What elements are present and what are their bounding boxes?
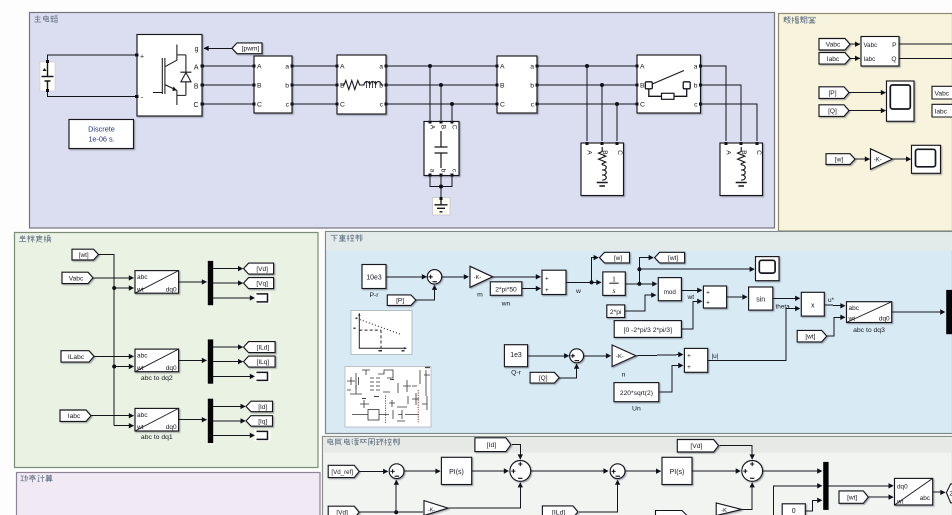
svg-text:abc: abc (137, 412, 148, 419)
port RL right (384, 64, 387, 67)
svg-text:mod: mod (664, 289, 677, 296)
svg-text:[Vd]: [Vd] (690, 443, 702, 450)
wire Vdc- to bridge - (48, 91, 136, 97)
gain 4 (clipped) (716, 503, 741, 515)
svg-text:C: C (616, 150, 623, 155)
svg-text:+: + (687, 353, 691, 360)
wire demux2 to terminator2 (213, 375, 254, 377)
svg-text:abc: abc (849, 305, 860, 312)
svg-text:[Vd]: [Vd] (336, 510, 348, 515)
svg-text:|u|: |u| (712, 353, 719, 360)
svg-text:dq0: dq0 (166, 286, 177, 293)
wire PI1 to sum7 (472, 470, 509, 472)
sum junction 7 (current fwd) (510, 461, 531, 482)
wire wt2 to abc-dq3 (827, 317, 845, 336)
junction wt scope (637, 267, 641, 271)
wire dq3 out to mux4 (892, 311, 945, 313)
svg-text:b: b (530, 83, 534, 90)
wire RL b to VI2 B (386, 84, 497, 86)
svg-text:theta: theta (776, 303, 791, 310)
svg-text:abc: abc (137, 353, 148, 360)
From tag [Q] (530, 372, 559, 383)
junction load1 b (600, 83, 604, 87)
svg-text:+: + (545, 275, 549, 282)
region area: power calculation (功率计算) (17, 473, 321, 515)
svg-text:[ILd]: [ILd] (257, 345, 270, 352)
svg-text:[ILd]: [ILd] (552, 509, 565, 515)
demux 1 (208, 261, 213, 305)
wire Vabc to PQ block (850, 43, 860, 45)
From tag [ILd] (clipped) (542, 506, 578, 515)
scope w (912, 145, 941, 173)
product block x (801, 292, 824, 316)
junction node phase c (450, 102, 454, 106)
svg-text:A: A (586, 150, 593, 155)
wire wt to dq0-1 (114, 287, 133, 289)
mux 5 (823, 462, 828, 510)
wire cap c down (441, 175, 452, 187)
wire Vd_ref to sum6 (359, 470, 387, 472)
region area: coordinate transform (坐标变换) (15, 233, 319, 468)
svg-text:[Id]: [Id] (487, 442, 497, 449)
ground symbol (433, 198, 451, 216)
wire RL a to VI2 A (386, 65, 497, 67)
svg-text:+: + (687, 364, 691, 371)
svg-text:b: b (440, 169, 447, 173)
svg-text:ILabc: ILabc (68, 354, 85, 361)
From tag ILabc (61, 351, 94, 362)
svg-text:C: C (640, 102, 645, 109)
label: 数据观察 (784, 17, 815, 24)
port cap top (439, 120, 442, 123)
port load2 top (755, 142, 758, 145)
wire VI1 a to RL A (292, 65, 337, 67)
Goto tag [Vd] (244, 263, 274, 274)
wire breaker b to load2 (701, 85, 742, 141)
svg-text:a: a (285, 64, 289, 71)
svg-text:a: a (429, 169, 436, 173)
svg-text:w: w (575, 288, 581, 295)
port VI1 right (290, 64, 293, 67)
DC voltage source Vdc (40, 62, 55, 91)
wire vector to sum3 (681, 301, 701, 329)
junction load1 c (615, 102, 619, 106)
From tag Iabc (coord) (60, 410, 91, 421)
wire bridge A to VI1 A (202, 65, 254, 67)
svg-text:B: B (640, 83, 645, 90)
wire VI2 c to breaker C (537, 103, 637, 105)
terminator 1 (255, 292, 271, 303)
mod block (658, 278, 681, 301)
svg-text:C: C (193, 102, 198, 109)
junction node phase a (428, 64, 432, 68)
From tag [Vd] (vc bottom, clipped) (328, 506, 359, 515)
three-phase series RL branch block (337, 55, 386, 114)
svg-text:dq0: dq0 (879, 316, 890, 323)
gain 3 (clipped) (424, 501, 448, 515)
port breaker right (699, 64, 702, 67)
PQ power measurement block (861, 37, 899, 67)
RL load block 2 (720, 143, 763, 196)
svg-text:Q: Q (891, 56, 896, 63)
svg-text:c: c (531, 102, 535, 109)
svg-text:PI(s): PI(s) (670, 469, 685, 476)
svg-text:A: A (725, 150, 732, 155)
wire 0 to mux5 (805, 500, 821, 511)
Goto tag [Id] (246, 401, 273, 412)
wire sum2 to integrator (566, 281, 601, 283)
svg-text:-K: -K (721, 508, 727, 514)
constant 0 (782, 504, 805, 515)
constant 10e3 (P reference) (362, 265, 386, 289)
wire w branch up to [w] (592, 258, 599, 283)
svg-text:A: A (340, 64, 345, 71)
junction load1 a (585, 64, 589, 68)
svg-text:2*pi*50: 2*pi*50 (495, 286, 517, 293)
wire mod to sum3 (681, 289, 701, 291)
wire Q to sum5 (559, 364, 577, 378)
svg-text:1e-06 s.: 1e-06 s. (88, 135, 114, 144)
port RL left (335, 83, 338, 86)
port load2 top (739, 142, 742, 145)
From tag [Q] (819, 105, 849, 117)
svg-text:[P]: [P] (396, 298, 404, 305)
port RL left (335, 102, 338, 105)
wire gain n to sum4 (636, 355, 683, 356)
wire ILabc to abc input (94, 355, 134, 357)
From tag [wt] 2 (797, 330, 827, 342)
RL load block 1 (581, 143, 624, 196)
svg-text:B: B (194, 83, 199, 90)
wire P out (899, 43, 952, 45)
mux 4 (946, 290, 952, 334)
integrator 1/s (603, 272, 626, 296)
wire VI2 b to breaker B (537, 84, 637, 86)
Discrete solver block (69, 120, 134, 149)
V-I measurement block 2 (497, 56, 537, 113)
svg-text:Vabc: Vabc (935, 90, 950, 97)
svg-text:P: P (892, 42, 897, 49)
abc to dq0 block 1 (135, 271, 179, 294)
wire wt branch up (639, 258, 653, 284)
svg-text:Vabc: Vabc (864, 42, 878, 49)
svg-text:[ILq]: [ILq] (257, 359, 270, 366)
constant 2*pi (607, 305, 625, 318)
wire wn to sum2 (522, 288, 541, 290)
From tag [P] (819, 87, 849, 99)
wire tap to load1 B (601, 85, 603, 141)
svg-text:Discrete: Discrete (88, 125, 115, 134)
svg-text:abc to dq2: abc to dq2 (141, 375, 173, 382)
Goto tag [ILd] (244, 342, 276, 353)
sum block 3 (wt + offsets) (703, 286, 726, 308)
port VI2 left (495, 102, 498, 105)
svg-text:c: c (286, 102, 290, 109)
label: 电压电流双闭环控制 (328, 439, 400, 446)
svg-text:m: m (477, 292, 483, 299)
svg-text:[Vq]: [Vq] (256, 281, 268, 288)
sum junction 5 (Q error) (570, 349, 584, 363)
dq0 to abc transform block (895, 478, 933, 505)
svg-text:a: a (694, 64, 698, 71)
svg-text:b: b (694, 83, 698, 90)
wire tap to load1 C (616, 104, 618, 141)
wire sum6 to PI1 (404, 470, 440, 472)
wire demux3 to terminator3 (213, 434, 254, 436)
junction w (590, 280, 594, 284)
svg-text:C: C (755, 150, 762, 155)
wire demux2 to [ILq] (213, 361, 242, 363)
port VI2 right (535, 64, 538, 67)
svg-text:wt: wt (896, 499, 904, 506)
svg-text:[pwm]: [pwm] (242, 46, 260, 53)
wire w to gain (855, 158, 870, 160)
wire demux3 to [Iq] (213, 420, 245, 422)
Goto tag [ILq] (244, 356, 276, 367)
svg-text:s: s (612, 286, 615, 295)
svg-text:Un: Un (632, 405, 641, 412)
port cap top (428, 120, 431, 123)
port VI2 left (495, 83, 498, 86)
wire Iabc to PQ block (850, 57, 860, 59)
svg-text:wn: wn (501, 301, 511, 308)
label: 功率计算 (21, 475, 53, 482)
junction wt 2 (112, 365, 116, 369)
svg-text:A: A (500, 64, 505, 71)
svg-text:[w]: [w] (614, 255, 623, 262)
port load1 top (615, 142, 618, 145)
svg-text:a: a (379, 64, 383, 71)
svg-text:dq0: dq0 (897, 484, 908, 491)
wire PI2 to sum9 (692, 470, 740, 472)
port VI1 left (252, 64, 255, 67)
svg-text:abc: abc (137, 274, 148, 281)
port cap bottom (439, 173, 442, 176)
svg-text:[0 -2*pi/3 2*pi/3]: [0 -2*pi/3 2*pi/3] (624, 327, 672, 334)
From tag [Id] (vc) (475, 438, 511, 452)
svg-text:u*: u* (828, 297, 835, 304)
port VI1 left (252, 102, 255, 105)
wire breaker a to load2 (701, 66, 727, 141)
svg-text:B: B (500, 83, 505, 90)
svg-text:+: + (706, 299, 710, 306)
port bridge in+ (135, 53, 138, 56)
IGBT bridge inverter block (137, 35, 202, 117)
wire RL c to VI2 C (386, 103, 497, 105)
wire gain3 to sum7 (448, 483, 520, 508)
sum block 4 (|u|) (684, 348, 707, 372)
wire bridge C to VI1 C (202, 103, 254, 105)
svg-text:wt: wt (136, 424, 144, 431)
port bridge B (201, 83, 204, 86)
svg-text:wt: wt (136, 365, 144, 372)
gain m (-K-) (470, 266, 493, 287)
port VI1 right (290, 102, 293, 105)
port RL right (384, 102, 387, 105)
wire sum8 to PI2 (625, 470, 660, 472)
port RL left (335, 64, 338, 67)
wire gain to scope2 (893, 158, 911, 160)
wire 10e3 to sum1 (386, 276, 426, 278)
subsystem thumbnail (mini circuit preview) (345, 367, 431, 428)
wire VI1 c to RL C (292, 103, 337, 105)
svg-text:x: x (811, 302, 815, 309)
svg-text:Q-r: Q-r (511, 369, 522, 376)
wire tap c down to cap C (451, 104, 453, 120)
region area: data observation (数据观察) (779, 14, 952, 232)
label: 坐标变换 (19, 236, 51, 243)
port VI2 right (535, 102, 538, 105)
wire Q to scope1 (849, 110, 885, 112)
wire VI2 a to breaker A (537, 65, 637, 67)
wire tap b down to cap B (440, 85, 442, 120)
port VI1 left (252, 83, 255, 86)
From tag [pwm] (232, 43, 262, 54)
From tag [P] (387, 295, 416, 306)
wire P to sum1 (415, 285, 435, 300)
wire wt to dq0-3 (114, 425, 133, 427)
region area: voltage-current dual loop control (电压电流双闭环控制) (323, 437, 952, 515)
svg-text:[Q]: [Q] (539, 375, 548, 382)
svg-text:B: B (257, 83, 262, 90)
terminator 2 (255, 371, 271, 382)
wire integrator to mod (625, 283, 656, 285)
svg-text:abc to dq1: abc to dq1 (141, 434, 173, 441)
abc to dq0 block 2 (135, 349, 179, 372)
svg-text:abc: abc (920, 495, 931, 502)
wire sum1 to gain m (442, 276, 469, 278)
Goto tag [w] (600, 252, 630, 263)
wire tap to load1 A (586, 66, 588, 141)
svg-text:-K-: -K- (474, 275, 482, 281)
wire dq0-2 out to demux2 (179, 359, 207, 361)
wire sum5 to gain n (584, 355, 611, 357)
svg-text:B: B (440, 125, 447, 129)
wire wt to dq-abc (868, 496, 893, 498)
svg-text:wt: wt (687, 294, 695, 301)
svg-text:1e3: 1e3 (510, 352, 522, 359)
svg-text:-K-: -K- (616, 354, 624, 360)
svg-text:C: C (451, 125, 458, 130)
wire q-axis to mux5 (773, 486, 821, 515)
port bridge in- (135, 95, 138, 98)
svg-text:b: b (285, 83, 289, 90)
constant 1e3 (Q reference) (504, 345, 527, 367)
port Vdc bottom (46, 89, 49, 92)
svg-text:+: + (140, 54, 144, 61)
svg-text:Iabc: Iabc (935, 108, 948, 115)
svg-text:c: c (451, 169, 458, 172)
From tag Vabc (coord) (62, 272, 93, 283)
svg-text:0: 0 (792, 508, 796, 515)
svg-text:[Id]: [Id] (258, 404, 267, 411)
svg-text:C: C (340, 102, 345, 109)
wire Vabc to abc input (93, 277, 134, 279)
svg-text:C: C (500, 102, 505, 109)
svg-text:[wt]: [wt] (805, 334, 815, 341)
wire pwm to g (204, 47, 232, 49)
wire bridge B to VI1 B (202, 84, 254, 86)
sum junction 9 (voltage fwd) (742, 461, 763, 482)
wire VI1 b to RL B (292, 84, 337, 86)
label: 主电路 (34, 16, 57, 23)
wire Un to sum4 (659, 366, 683, 393)
outport tag 2 (clipped) (946, 484, 952, 503)
region area: main power circuit (主电路) (30, 13, 775, 229)
wire wt to dq0-2 (114, 366, 133, 368)
wire Id to sum7 top (512, 445, 520, 459)
port load1 top (600, 142, 603, 145)
constant phase vector [0 -2*pi/3 2*pi/3] (614, 321, 681, 338)
svg-text:Iabc: Iabc (827, 56, 840, 63)
port load2 top (724, 142, 727, 145)
svg-text:dq0: dq0 (166, 424, 177, 431)
svg-text:g: g (195, 46, 199, 53)
wire demux1 to [Vd] (213, 268, 242, 270)
wire ILd to sum8 (579, 480, 618, 512)
three-phase capacitor filter block (424, 122, 459, 176)
port cap bottom (428, 173, 431, 176)
svg-text:dq0: dq0 (166, 365, 177, 372)
gain -K- (w scaling) (871, 149, 893, 170)
Goto tag Vabc (clipped) (932, 86, 952, 99)
wire Vd feedback (359, 511, 423, 513)
port VI1 right (290, 83, 293, 86)
svg-text:[Q]: [Q] (828, 108, 837, 115)
port Vdc top (46, 60, 49, 63)
port VI2 right (535, 83, 538, 86)
svg-text:PI(s): PI(s) (449, 469, 464, 476)
svg-text:[w]: [w] (835, 157, 844, 164)
svg-text:Iabc: Iabc (864, 56, 876, 63)
wire dq0-3 out to demux3 (179, 419, 207, 421)
Goto tag [Vq] (244, 278, 274, 289)
svg-text:[Iq]: [Iq] (258, 418, 267, 425)
svg-text:10e3: 10e3 (366, 274, 381, 281)
wire cap b to ground (440, 175, 442, 198)
wire tap a down to cap A (429, 66, 431, 120)
wire cap a down (430, 175, 441, 187)
svg-text:C: C (257, 102, 262, 109)
From tag [Vd] (vc top) (677, 440, 718, 453)
From tag [Vd_ref] (328, 465, 359, 477)
PI controller 1 (441, 457, 471, 484)
Goto tag Iabc (clipped) (932, 104, 952, 117)
wire sum3 to sin (727, 296, 747, 298)
wire dq-abc out (933, 491, 945, 493)
port bridge C (201, 102, 204, 105)
svg-text:n: n (622, 371, 626, 378)
svg-text:[Vd_ref]: [Vd_ref] (331, 469, 353, 476)
Goto tag [Iq] (246, 416, 273, 427)
svg-text:abc to dq3: abc to dq3 (853, 327, 885, 334)
svg-text:sin: sin (756, 296, 765, 303)
port RL right (384, 83, 387, 86)
svg-text:wt: wt (136, 286, 144, 293)
junction Vd feedback (394, 510, 398, 514)
three-phase breaker block (637, 55, 701, 113)
svg-text:1: 1 (612, 275, 616, 284)
Goto tag [wt] (655, 252, 685, 263)
svg-text:+: + (706, 290, 710, 297)
port cap bottom (450, 173, 453, 176)
sum junction 1 (P error) (427, 270, 441, 284)
wire Vd to sum9 top (720, 446, 753, 459)
svg-text:B: B (601, 150, 608, 155)
wire product to abc-dq3 (824, 304, 844, 307)
sum block 2 (add w) (542, 270, 566, 294)
svg-text:[wt]: [wt] (847, 495, 857, 502)
